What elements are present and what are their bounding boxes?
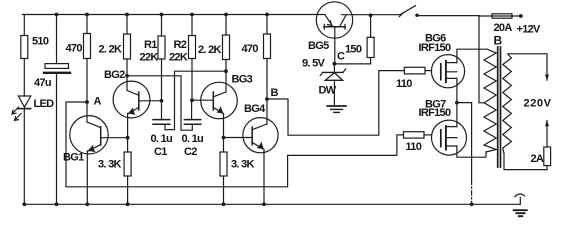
node BG3 collector bbox=[224, 69, 228, 73]
transistor BG1 bbox=[70, 116, 128, 205]
wire 110 to BG6 gate bbox=[425, 70, 432, 72]
svg-text:A: A bbox=[94, 96, 102, 108]
svg-text:BG5: BG5 bbox=[308, 40, 329, 52]
svg-text:BG4: BG4 bbox=[244, 103, 266, 115]
node A bbox=[85, 100, 89, 104]
svg-text:C1: C1 bbox=[154, 146, 167, 158]
capacitor C2 bbox=[184, 100, 200, 124]
resistor 470 (left) bbox=[84, 15, 91, 123]
mosfet BG7 IRF150 bbox=[432, 120, 487, 157]
svg-text:DW: DW bbox=[319, 85, 337, 97]
junction dots bottom rail bbox=[22, 202, 473, 206]
terminal +12V bbox=[519, 14, 523, 18]
resistor 510 bbox=[21, 15, 28, 97]
svg-text:C: C bbox=[337, 51, 345, 63]
svg-text:BG2: BG2 bbox=[104, 69, 125, 81]
svg-text:9. 5V: 9. 5V bbox=[302, 58, 326, 70]
wire node C to 150 bbox=[334, 58, 370, 64]
node BG2 base bbox=[160, 99, 164, 103]
svg-text:150: 150 bbox=[345, 44, 362, 56]
svg-text:BG3: BG3 bbox=[232, 74, 253, 86]
svg-text:2. 2K: 2. 2K bbox=[99, 44, 123, 56]
node BG1 base bbox=[126, 136, 130, 140]
node BG6 source bbox=[455, 101, 459, 105]
ground (below DW) bbox=[327, 106, 346, 112]
switch S bbox=[399, 6, 418, 17]
svg-text:110: 110 bbox=[406, 141, 422, 153]
node BG2 collector bbox=[125, 74, 129, 78]
svg-text:2A: 2A bbox=[531, 153, 544, 165]
svg-text:470: 470 bbox=[66, 43, 83, 55]
svg-text:22K: 22K bbox=[140, 52, 159, 64]
transformer core bbox=[498, 47, 501, 167]
wire top rail right bbox=[418, 15, 479, 17]
svg-text:B: B bbox=[494, 34, 503, 48]
mosfet BG6 IRF150 bbox=[431, 49, 487, 126]
arrow up 220V bbox=[545, 120, 549, 126]
svg-text:470: 470 bbox=[242, 43, 259, 55]
svg-text:C2: C2 bbox=[184, 146, 197, 158]
svg-text:3. 3K: 3. 3K bbox=[231, 159, 255, 171]
resistor R2 bbox=[189, 15, 196, 101]
svg-text:B: B bbox=[271, 87, 279, 99]
fuse 20A bbox=[492, 14, 512, 18]
zener diode DW bbox=[320, 64, 345, 106]
svg-text:22K: 22K bbox=[169, 52, 188, 64]
wire center-tap drop bbox=[479, 16, 485, 103]
resistor R1 bbox=[158, 15, 165, 101]
earth terminal right bbox=[514, 194, 527, 216]
resistor 2.2K (first) bbox=[124, 15, 131, 82]
resistor 3.3K (right) bbox=[220, 152, 227, 204]
transistor BG5 bbox=[316, 2, 352, 64]
arrow down 220V bbox=[545, 75, 549, 81]
svg-text:20A: 20A bbox=[494, 22, 513, 34]
junction dots top rail bbox=[55, 13, 269, 17]
resistor 150 bbox=[367, 13, 374, 57]
wire to fuse bbox=[479, 15, 519, 17]
transformer B primary winding bbox=[484, 49, 496, 152]
node B bbox=[265, 97, 269, 101]
wire secondary bottom loop bbox=[504, 154, 547, 170]
resistor 110 (lower) bbox=[404, 132, 425, 138]
capacitor C1 bbox=[153, 101, 170, 130]
node BG3 base bbox=[190, 98, 194, 102]
transistor BG2 bbox=[113, 81, 161, 152]
wire 110 to BG7 gate bbox=[424, 134, 432, 136]
svg-text:0. 1u: 0. 1u bbox=[182, 133, 204, 145]
wire earth dash-dot bbox=[471, 180, 473, 204]
wire C1 to BG3 collector bbox=[165, 71, 226, 129]
resistor 470 (right) bbox=[264, 15, 271, 125]
transistor BG3 bbox=[192, 82, 237, 152]
resistor 2.2K (second) bbox=[223, 15, 230, 93]
wire top rail mid (BG5 collector to switch) bbox=[342, 14, 401, 16]
wire BG3 emitter to BG4 base bbox=[224, 137, 253, 139]
svg-text:IRF150: IRF150 bbox=[419, 107, 451, 119]
capacitor 47u bbox=[44, 15, 70, 205]
wire node B to BG6 gate bbox=[267, 71, 404, 136]
resistor 3.3K (left) bbox=[124, 152, 131, 204]
svg-text:IRF150: IRF150 bbox=[419, 42, 451, 54]
wire BG2 collector to C2 bbox=[127, 76, 192, 130]
svg-text:510: 510 bbox=[32, 36, 49, 48]
wire top rail left bbox=[23, 14, 326, 16]
svg-text:220V: 220V bbox=[524, 98, 552, 110]
LED bbox=[12, 96, 31, 204]
wire bottom rail bbox=[24, 203, 520, 205]
transistor BG4 bbox=[243, 118, 278, 205]
wire output to fuse 2A bbox=[546, 121, 548, 148]
svg-text:0. 1u: 0. 1u bbox=[151, 133, 173, 145]
wire node A to BG7 gate bbox=[66, 102, 404, 187]
svg-text:BG1: BG1 bbox=[63, 152, 84, 164]
svg-text:LED: LED bbox=[34, 98, 55, 110]
wire source bus down bbox=[457, 103, 472, 180]
svg-text:3. 3K: 3. 3K bbox=[98, 159, 122, 171]
svg-text:R1: R1 bbox=[144, 39, 157, 51]
svg-text:2. 2K: 2. 2K bbox=[198, 44, 222, 56]
fuse 2A bbox=[544, 147, 551, 170]
svg-text:110: 110 bbox=[396, 78, 412, 90]
svg-text:R2: R2 bbox=[174, 39, 187, 51]
svg-text:+12V: +12V bbox=[517, 24, 542, 36]
wire secondary top to output bbox=[508, 54, 547, 80]
node BG3 emitter bbox=[222, 136, 226, 140]
svg-text:47u: 47u bbox=[34, 77, 51, 89]
resistor 110 (upper) bbox=[404, 67, 425, 74]
node C bbox=[333, 62, 337, 66]
transformer B secondary winding bbox=[503, 54, 512, 154]
